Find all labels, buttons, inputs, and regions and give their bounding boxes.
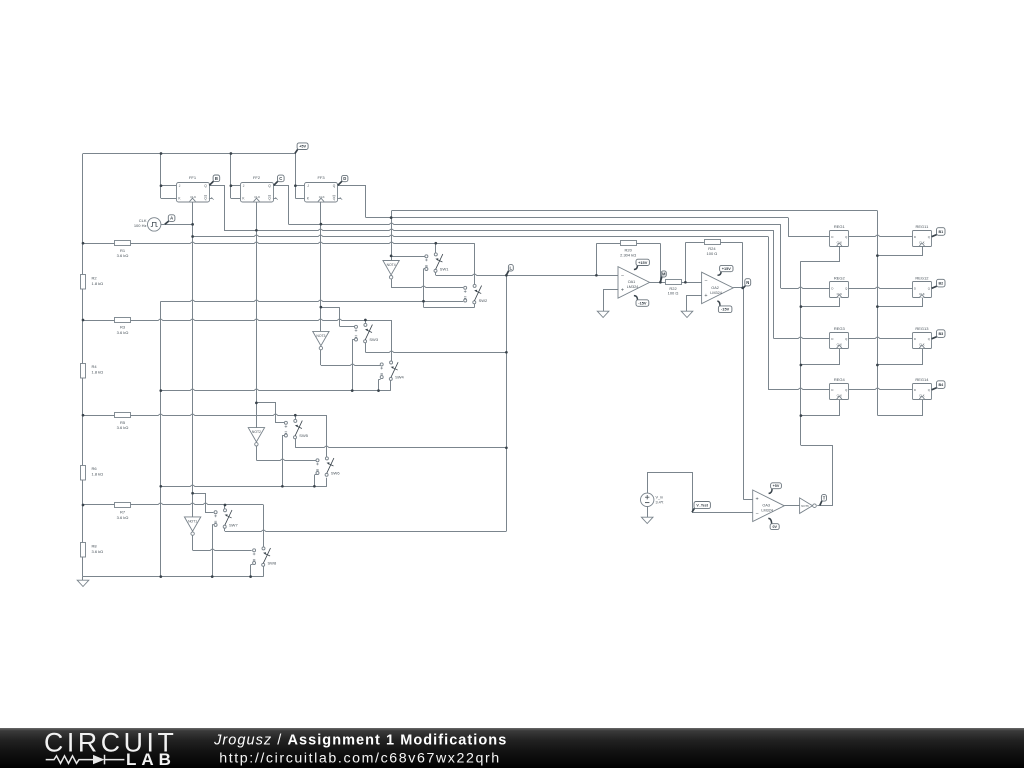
wire REG3.Q to REG13.D <box>849 337 913 339</box>
power label +5V (OA3) <box>769 483 782 494</box>
svg-text:D: D <box>914 388 916 392</box>
svg-text:NOT1: NOT1 <box>188 520 197 524</box>
svg-text:C: C <box>279 176 282 181</box>
wire ground bus <box>160 301 162 576</box>
wire R22 to OA2 <box>681 282 702 284</box>
wire OA1 + to ground <box>604 290 619 312</box>
svg-text:3.6 kΩ: 3.6 kΩ <box>117 425 129 430</box>
resistor R8 <box>81 543 104 558</box>
svg-text:T: T <box>823 495 826 500</box>
svg-text:LM324: LM324 <box>627 285 639 289</box>
wire net D <box>338 186 878 261</box>
svg-text:SW5: SW5 <box>299 433 308 438</box>
register REG12 <box>913 276 932 298</box>
svg-text:NOT2: NOT2 <box>252 430 261 434</box>
svg-text:D: D <box>831 337 833 341</box>
wire REG2 CLK <box>801 298 840 307</box>
node B4 <box>932 381 945 390</box>
wire OA2 feedback <box>685 243 742 288</box>
wire REG1.Q to REG11.D <box>849 235 913 237</box>
node L <box>506 265 513 275</box>
svg-text:Jrogusz / Assignment 1 Modific: Jrogusz / Assignment 1 Modifications <box>213 732 507 748</box>
svg-text:R7: R7 <box>120 510 126 515</box>
op-amp OA3 <box>753 490 785 522</box>
svg-text:LAB: LAB <box>126 750 176 768</box>
wire V_in to OA3 - <box>648 473 753 513</box>
op-amp OA2 <box>702 272 734 304</box>
resistor R4 <box>81 364 104 379</box>
wire net B <box>209 186 830 428</box>
wire REG3 CLK <box>801 349 840 365</box>
switch SW7 <box>214 509 238 528</box>
svg-text:3.6 kΩ: 3.6 kΩ <box>117 253 129 258</box>
wire row2 return <box>161 340 391 391</box>
register REG3 <box>830 326 849 348</box>
svg-text:2.304 kΩ: 2.304 kΩ <box>620 252 636 257</box>
ground (V_in) <box>641 517 653 523</box>
flip-flop FF2 <box>241 175 278 202</box>
node B2 <box>932 279 945 288</box>
power label 0V (OA3) <box>768 518 779 529</box>
svg-text:R2: R2 <box>92 275 98 280</box>
node A <box>165 215 175 225</box>
svg-text:R1: R1 <box>120 248 126 253</box>
ground (OA2 +) <box>681 311 693 317</box>
svg-text:-15V: -15V <box>638 301 647 306</box>
register REG4 <box>830 377 849 399</box>
svg-text:OA3: OA3 <box>762 504 770 508</box>
wire V_in ground stub <box>647 507 649 518</box>
wire REG4.Q to REG14.D <box>849 388 913 390</box>
flip-flop FF3 <box>305 175 343 202</box>
svg-text:+15V: +15V <box>638 260 648 265</box>
svg-text:100 Hz: 100 Hz <box>134 223 147 228</box>
power label +15V (OA1) <box>634 259 650 269</box>
svg-text:REG1: REG1 <box>834 224 846 229</box>
wire FF2 J/K tie to +5V <box>231 154 241 199</box>
wire SW1 out / node L line <box>436 272 619 275</box>
svg-text:3.4*t: 3.4*t <box>656 500 665 504</box>
svg-text:REG11: REG11 <box>915 224 929 229</box>
svg-text:D: D <box>914 287 916 291</box>
svg-text:R5: R5 <box>120 420 126 425</box>
wire CLK to FF1 <box>161 224 193 226</box>
switch SW5 <box>284 419 308 438</box>
svg-text:B1: B1 <box>938 230 943 234</box>
resistor R22 <box>666 280 682 296</box>
resistor R7 <box>115 503 131 521</box>
resistor R24 <box>705 240 721 256</box>
svg-text:1.8 kΩ: 1.8 kΩ <box>92 472 104 477</box>
svg-text:NOT6: NOT6 <box>801 504 809 508</box>
wire reference ladder <box>82 154 84 577</box>
svg-text:D: D <box>831 287 833 291</box>
node V_Test <box>692 502 710 513</box>
svg-text:OA2: OA2 <box>711 286 719 290</box>
wire OA3 to NOT6 <box>784 505 799 507</box>
wire SW5 out <box>295 439 506 448</box>
svg-text:−: − <box>704 279 707 285</box>
wire SW3 out <box>365 343 506 353</box>
svg-text:CLK: CLK <box>319 195 325 199</box>
node N <box>744 279 751 288</box>
wire OA2 + to ground <box>687 296 702 312</box>
wire net A <box>193 202 830 517</box>
svg-text:1.8 kΩ: 1.8 kΩ <box>92 281 104 286</box>
svg-text:B: B <box>215 176 218 181</box>
switch SW3 <box>355 323 379 342</box>
node B <box>209 175 219 185</box>
svg-text:−: − <box>621 273 624 279</box>
wire net C <box>274 186 830 332</box>
svg-text:V_in: V_in <box>656 495 664 499</box>
svg-text:+: + <box>704 293 707 299</box>
wire REG11 CLK <box>878 247 923 256</box>
switch SW1 <box>425 253 449 272</box>
register REG11 <box>913 224 932 247</box>
svg-text:-15V: -15V <box>721 307 730 312</box>
svg-text:FF1: FF1 <box>189 175 197 180</box>
svg-text:3.6 kΩ: 3.6 kΩ <box>117 330 129 335</box>
svg-text:D: D <box>914 337 916 341</box>
wire SW7 out <box>225 528 507 531</box>
resistor R2 <box>81 275 104 290</box>
svg-text:D: D <box>914 235 916 239</box>
voltage source V_in <box>641 493 665 506</box>
svg-text:CLK: CLK <box>190 195 196 199</box>
wire FF1 J/K tie to +5V <box>161 154 177 199</box>
wire R3 tap <box>83 319 392 361</box>
svg-text:+: + <box>756 496 759 502</box>
power label +15V (OA2) <box>718 265 734 275</box>
wire NOT1 output <box>193 535 252 550</box>
svg-text:NOT4: NOT4 <box>387 263 396 267</box>
resistor R5 <box>115 413 131 431</box>
svg-text:3.6 kΩ: 3.6 kΩ <box>117 515 129 520</box>
ground (ladder) <box>77 577 89 587</box>
node B3 <box>932 330 945 339</box>
svg-text:+5V: +5V <box>299 144 306 149</box>
wire OA2 output / net N <box>733 288 753 500</box>
wire row1 return <box>161 269 475 308</box>
register REG2 <box>830 276 849 298</box>
svg-text:LM324: LM324 <box>710 291 722 295</box>
power label -15V (OA2) <box>717 301 732 313</box>
svg-text:OA1: OA1 <box>628 280 636 284</box>
svg-text:LM324: LM324 <box>761 509 773 513</box>
svg-text:1.8 kΩ: 1.8 kΩ <box>92 370 104 375</box>
svg-text:R3: R3 <box>120 325 126 330</box>
svg-text:3.6 kΩ: 3.6 kΩ <box>92 549 104 554</box>
wire R1 tap <box>83 242 475 284</box>
node B1 <box>932 228 945 237</box>
resistor R3 <box>115 318 131 336</box>
inverter NOT3 <box>313 331 329 349</box>
svg-text:REG2: REG2 <box>834 276 846 281</box>
svg-text:NOT3: NOT3 <box>316 334 325 338</box>
svg-text:http://circuitlab.com/c68v67wx: http://circuitlab.com/c68v67wx22qrh <box>219 751 501 767</box>
resistor R6 <box>81 466 104 481</box>
power label +5V <box>295 143 308 154</box>
svg-text:SW4: SW4 <box>395 375 404 380</box>
svg-text:100 Ω: 100 Ω <box>707 251 718 256</box>
wire net T <box>801 261 833 506</box>
flip-flop FF1 <box>177 175 214 202</box>
register REG13 <box>913 326 932 348</box>
svg-text:R8: R8 <box>92 543 98 548</box>
clock source CLK 100 Hz <box>134 218 161 231</box>
svg-text:SW1: SW1 <box>440 266 449 271</box>
svg-text:REG14: REG14 <box>915 377 929 382</box>
svg-text:N: N <box>746 280 749 285</box>
svg-text:B3: B3 <box>938 332 943 336</box>
svg-text:R4: R4 <box>92 364 98 369</box>
wire +5V rail <box>83 153 295 155</box>
op-amp OA1 <box>618 267 650 299</box>
svg-text:FF2: FF2 <box>253 175 261 180</box>
svg-text:+: + <box>621 288 624 294</box>
wire OA1 output <box>650 282 666 284</box>
resistor R1 <box>115 241 131 259</box>
svg-text:REG13: REG13 <box>915 326 929 331</box>
ground (OA1 +) <box>597 311 609 317</box>
switch SW2 <box>464 284 488 303</box>
svg-text:B2: B2 <box>938 281 943 285</box>
svg-text:SW6: SW6 <box>331 470 340 475</box>
node C <box>274 175 284 185</box>
wire REG14 CLK <box>878 400 923 416</box>
node M <box>660 271 666 282</box>
wire REG12 CLK <box>878 298 923 307</box>
wire row4 return <box>212 525 263 577</box>
inverter NOT2 <box>248 428 264 446</box>
switch SW6 <box>316 457 340 476</box>
svg-text:SW7: SW7 <box>229 522 238 527</box>
svg-text:0V: 0V <box>772 525 777 529</box>
svg-text:SW2: SW2 <box>479 298 488 303</box>
wire R5 tap <box>83 414 327 457</box>
svg-text:100 Ω: 100 Ω <box>668 291 679 296</box>
node D <box>338 175 348 185</box>
wire REG4 CLK <box>801 400 840 416</box>
svg-text:REG3: REG3 <box>834 326 846 331</box>
wire FF3 J/K tie to +5V <box>295 154 304 199</box>
svg-text:L: L <box>510 265 513 270</box>
resistor R20 <box>620 241 636 258</box>
wire ground line <box>83 576 264 578</box>
wire NOT2 output <box>256 446 316 460</box>
switch SW4 <box>380 361 404 380</box>
svg-text:REG4: REG4 <box>834 377 846 382</box>
wire OA1 feedback <box>596 243 660 282</box>
svg-text:SW3: SW3 <box>369 337 378 342</box>
power label -15V (OA1) <box>634 296 649 307</box>
wire REG13 CLK <box>878 349 923 365</box>
svg-text:D: D <box>343 176 346 181</box>
svg-text:D: D <box>831 388 833 392</box>
wire REG2.Q to REG12.D <box>849 287 913 289</box>
svg-text:SW8: SW8 <box>268 560 277 565</box>
svg-text:+5V: +5V <box>773 484 780 488</box>
wire R7 tap <box>83 503 264 547</box>
svg-text:CLK: CLK <box>139 218 147 223</box>
buffer NOT6 <box>800 498 817 514</box>
wire NOT3 output <box>321 350 381 366</box>
node T <box>820 495 827 506</box>
svg-text:V_Test: V_Test <box>696 503 708 507</box>
svg-text:A: A <box>170 216 173 221</box>
svg-text:CLK: CLK <box>254 195 260 199</box>
register REG14 <box>913 377 932 399</box>
wire L bus vertical <box>506 275 508 531</box>
svg-text:R6: R6 <box>92 466 98 471</box>
svg-text:REG12: REG12 <box>915 276 929 281</box>
wire REG11-14 CLK column <box>877 211 879 416</box>
svg-text:−: − <box>756 511 759 517</box>
svg-text:+15V: +15V <box>722 266 732 271</box>
wire NOT4 output <box>391 279 463 287</box>
svg-text:M: M <box>662 272 666 277</box>
wire row3 return <box>161 435 327 486</box>
svg-text:FF3: FF3 <box>317 175 325 180</box>
inverter NOT4 <box>383 261 399 279</box>
svg-text:D: D <box>831 235 833 239</box>
wire REG1 CLK <box>801 247 840 262</box>
switch SW8 <box>253 547 277 566</box>
register REG1 <box>830 224 849 247</box>
inverter NOT1 <box>184 517 200 535</box>
